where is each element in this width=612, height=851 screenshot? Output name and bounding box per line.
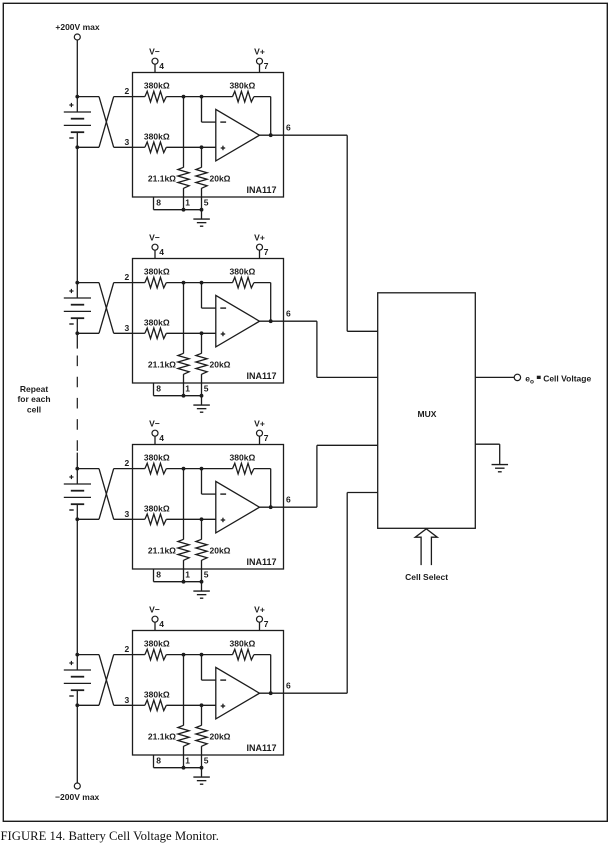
- battery cell 3 top lead: [76, 469, 78, 484]
- svg-text:V−: V−: [149, 232, 160, 242]
- battery cell 2 plate long lower: [64, 310, 91, 312]
- +200V max terminal: [55, 22, 99, 40]
- wire pin3 into 380k block 4: [133, 704, 145, 706]
- battery cell 2 minus node dot: [75, 331, 79, 335]
- wire block4 output to MUX: [284, 493, 378, 694]
- figure caption: [1, 829, 219, 844]
- wire battery2 down (solid part): [76, 333, 78, 348]
- battery cell 2 plus sign: [69, 289, 73, 293]
- svg-text:21.1kΩ: 21.1kΩ: [148, 174, 176, 184]
- svg-text:5: 5: [204, 570, 209, 580]
- V+ supply terminal block 1 (pin 7): [254, 46, 269, 72]
- junction dot output node block 2: [269, 319, 273, 323]
- pin 5 label block 2: [204, 384, 209, 394]
- pin 3 label block 2: [124, 323, 129, 333]
- wire battery 3 minus to pin2 (cross): [77, 469, 132, 520]
- V- supply terminal block 4 (pin 4): [149, 604, 164, 630]
- op-amp minus sign block 2: [220, 307, 226, 309]
- resistor 20k block 1: [196, 167, 207, 188]
- op-amp plus sign block 4: [221, 704, 226, 709]
- eo = Cell Voltage label: [525, 373, 591, 385]
- wire battery3 to battery4: [76, 519, 78, 654]
- battery cell 1 plate short lower: [71, 131, 84, 133]
- junction dot pin5 block 4: [200, 766, 204, 770]
- repeat for each cell note: [17, 384, 50, 415]
- wire battery 1 plus to pin3 (cross): [77, 97, 132, 148]
- 380k label input pin3 block 3: [144, 503, 170, 513]
- junction dot 20k tap block 4: [200, 703, 204, 707]
- svg-text:4: 4: [159, 433, 164, 443]
- INA117 part label block 4: [246, 743, 276, 753]
- wire MUX to ground: [475, 444, 499, 464]
- resistor 380k input (pin3) block 1: [145, 142, 166, 153]
- svg-text:INA117: INA117: [246, 743, 276, 753]
- wire inverting input branch block 3: [202, 469, 216, 495]
- svg-text:380kΩ: 380kΩ: [144, 267, 170, 277]
- pin 5 label block 4: [204, 756, 209, 766]
- op-amp minus sign block 3: [220, 493, 226, 495]
- pin 2 label block 2: [124, 272, 129, 282]
- wire to ground block 3: [201, 582, 203, 591]
- 21.1k label block 1: [148, 174, 176, 184]
- wire 20k lower lead block 1: [201, 188, 203, 210]
- pin 3 label block 3: [124, 509, 129, 519]
- wire 20k lower lead block 4: [201, 746, 203, 768]
- battery cell 4 plate short upper: [71, 676, 84, 678]
- svg-text:8: 8: [156, 756, 161, 766]
- wire +200V to battery 1: [76, 40, 78, 97]
- pin 2 label block 1: [124, 86, 129, 96]
- 380k label input pin2 block 4: [144, 639, 170, 649]
- junction dot pin1 block 4: [182, 766, 186, 770]
- svg-text:for each: for each: [17, 394, 50, 404]
- wire 21.1k upper lead block 3: [183, 469, 185, 540]
- svg-text:8: 8: [156, 384, 161, 394]
- INA117 part label block 2: [246, 371, 276, 381]
- svg-text:8: 8: [156, 198, 161, 208]
- svg-text:V+: V+: [254, 604, 265, 614]
- junction dot 21.1k tap block 4: [182, 653, 186, 657]
- 20k label block 1: [210, 174, 231, 184]
- svg-text:380kΩ: 380kΩ: [230, 639, 256, 649]
- junction dot pin1 block 2: [182, 394, 186, 398]
- resistor 380k input (pin2) block 1: [145, 91, 166, 102]
- svg-text:4: 4: [159, 247, 164, 257]
- svg-text:V+: V+: [254, 418, 265, 428]
- resistor 20k block 4: [196, 725, 207, 746]
- svg-text:cell: cell: [27, 405, 41, 415]
- svg-text:5: 5: [204, 198, 209, 208]
- resistor 380k input (pin2) block 3: [145, 463, 166, 474]
- wire battery4 to -200V: [76, 705, 78, 783]
- svg-text:INA117: INA117: [246, 185, 276, 195]
- pin 1 label block 1: [185, 198, 190, 208]
- wire pin3 into 380k block 3: [133, 518, 145, 520]
- wire 21.1k lower lead block 3: [183, 560, 185, 582]
- ground symbol block 1: [193, 219, 210, 226]
- pin 6 label block 4: [286, 681, 291, 691]
- wire inverting input branch block 2: [202, 283, 216, 309]
- battery cell 1 minus sign: [69, 137, 73, 139]
- svg-text:5: 5: [204, 384, 209, 394]
- wire feedback to output block 3: [254, 469, 271, 508]
- svg-text:V+: V+: [254, 46, 265, 56]
- wire pin3 into 380k block 1: [133, 146, 145, 148]
- wire 20k upper lead block 2: [201, 333, 203, 353]
- V+ supply terminal block 4 (pin 7): [254, 604, 269, 630]
- wire noninverting input block 1: [166, 146, 216, 148]
- wire inverting input branch block 4: [202, 655, 216, 681]
- battery cell 2 plate long upper: [64, 297, 91, 299]
- battery cell 3 plus sign: [69, 475, 73, 479]
- MUX box: [378, 293, 476, 529]
- battery cell 3 plate long upper: [64, 483, 91, 485]
- resistor 380k input (pin3) block 4: [145, 700, 166, 711]
- svg-text:Cell Voltage: Cell Voltage: [543, 373, 591, 383]
- resistor 380k input (pin2) block 2: [145, 277, 166, 288]
- wire 21.1k lower lead block 2: [183, 374, 185, 396]
- junction dot pin5 block 1: [200, 208, 204, 212]
- INA117 block 3 box outline: [133, 445, 284, 570]
- wire inverting input branch block 1: [202, 97, 216, 123]
- battery cell 4 top lead: [76, 655, 78, 670]
- svg-text:1: 1: [185, 756, 190, 766]
- INA117 block 2 box outline: [133, 259, 284, 384]
- pin 1 label block 4: [185, 756, 190, 766]
- wire battery 2 plus to pin3 (cross): [77, 283, 132, 334]
- resistor 380k feedback block 2: [233, 277, 254, 288]
- svg-text:21.1kΩ: 21.1kΩ: [148, 732, 176, 742]
- junction dot 20k tap block 3: [200, 517, 204, 521]
- wire 21.1k upper lead block 1: [183, 97, 185, 168]
- battery cell 2 minus sign: [69, 323, 73, 325]
- svg-text:2: 2: [124, 458, 129, 468]
- 380k label feedback block 3: [230, 453, 256, 463]
- svg-text:−200V max: −200V max: [55, 792, 99, 802]
- wire to ground block 4: [201, 768, 203, 777]
- junction dot pin1 block 3: [182, 580, 186, 584]
- svg-text:6: 6: [286, 123, 291, 133]
- svg-text:3: 3: [124, 137, 129, 147]
- INA117 block 4 box outline: [133, 631, 284, 756]
- wire summing node top row block 1: [166, 96, 232, 98]
- INA117 block 1 box outline: [133, 73, 284, 198]
- INA117 part label block 3: [246, 557, 276, 567]
- battery cell 3 plate short lower: [71, 503, 84, 505]
- svg-text:6: 6: [286, 681, 291, 691]
- pin 2 label block 3: [124, 458, 129, 468]
- resistor 21.1k block 4: [178, 725, 189, 746]
- wire pin8 stub block 3: [154, 569, 184, 582]
- battery cell 1 plus node dot: [75, 95, 79, 99]
- svg-text:20kΩ: 20kΩ: [210, 174, 231, 184]
- battery cell 4 bottom lead: [76, 690, 78, 705]
- resistor 380k feedback block 1: [233, 91, 254, 102]
- wire 21.1k upper lead block 4: [183, 655, 185, 726]
- svg-text:3: 3: [124, 323, 129, 333]
- wire feedback to output block 1: [254, 97, 271, 136]
- junction dot output node block 1: [269, 133, 273, 137]
- svg-text:4: 4: [159, 619, 164, 629]
- wire pin8 stub block 4: [154, 755, 184, 768]
- pin 8 label block 1: [156, 198, 161, 208]
- battery cell 1 top lead: [76, 97, 78, 112]
- resistor 380k input (pin3) block 2: [145, 328, 166, 339]
- junction dot 21.1k tap block 2: [182, 281, 186, 285]
- V+ supply terminal block 2 (pin 7): [254, 232, 269, 258]
- battery cell 1 plate long upper: [64, 111, 91, 113]
- wire 20k lower lead block 3: [201, 560, 203, 582]
- pin 6 label block 3: [286, 495, 291, 505]
- svg-text:V−: V−: [149, 418, 160, 428]
- wire pin2 into 380k block 1: [133, 96, 145, 98]
- wire pin1-pin5 tie block 2: [184, 395, 202, 397]
- wire pin1-pin5 tie block 4: [184, 767, 202, 769]
- svg-text:V+: V+: [254, 232, 265, 242]
- battery cell 1 bottom lead: [76, 132, 78, 147]
- pin 8 label block 3: [156, 570, 161, 580]
- op-amp plus sign block 1: [221, 146, 226, 151]
- resistor 21.1k block 1: [178, 167, 189, 188]
- battery cell 4 plus node dot: [75, 653, 79, 657]
- svg-text:20kΩ: 20kΩ: [210, 732, 231, 742]
- pin 1 label block 2: [185, 384, 190, 394]
- svg-text:380kΩ: 380kΩ: [144, 131, 170, 141]
- svg-text:6: 6: [286, 309, 291, 319]
- wire noninverting input block 3: [166, 518, 216, 520]
- resistor 20k block 2: [196, 353, 207, 374]
- svg-text:21.1kΩ: 21.1kΩ: [148, 360, 176, 370]
- wire battery 4 plus to pin3 (cross): [77, 655, 132, 706]
- battery cell 3 plate long lower: [64, 496, 91, 498]
- wire pin8 stub block 1: [154, 197, 184, 210]
- svg-text:380kΩ: 380kΩ: [144, 81, 170, 91]
- junction dot 21.1k tap block 1: [182, 95, 186, 99]
- svg-text:380kΩ: 380kΩ: [230, 81, 256, 91]
- svg-text:MUX: MUX: [418, 409, 437, 419]
- op-amp triangle block 3: [216, 481, 260, 533]
- svg-text:21.1kΩ: 21.1kΩ: [148, 546, 176, 556]
- svg-text:380kΩ: 380kΩ: [144, 503, 170, 513]
- battery cell 1 plus sign: [69, 103, 73, 107]
- op-amp plus sign block 2: [221, 332, 226, 337]
- junction dot inverting node block 2: [200, 281, 204, 285]
- resistor 380k feedback block 4: [233, 649, 254, 660]
- ground symbol block 3: [193, 591, 210, 598]
- svg-text:7: 7: [264, 247, 269, 257]
- svg-text:1: 1: [185, 384, 190, 394]
- wire summing node top row block 2: [166, 282, 232, 284]
- 380k label input pin3 block 1: [144, 131, 170, 141]
- junction dot 20k tap block 2: [200, 331, 204, 335]
- junction dot inverting node block 1: [200, 95, 204, 99]
- wire pin2 into 380k block 4: [133, 654, 145, 656]
- wire battery 1 minus to pin2 (cross): [77, 97, 132, 148]
- 20k label block 4: [210, 732, 231, 742]
- battery cell 4 plate long upper: [64, 669, 91, 671]
- svg-text:380kΩ: 380kΩ: [144, 639, 170, 649]
- battery cell 1 plate long lower: [64, 124, 91, 126]
- svg-text:2: 2: [124, 644, 129, 654]
- svg-text:7: 7: [264, 61, 269, 71]
- svg-text:6: 6: [286, 495, 291, 505]
- wire to battery3 (solid part): [76, 453, 78, 469]
- wire pin8 stub block 2: [154, 383, 184, 396]
- battery cell 4 plate short lower: [71, 689, 84, 691]
- wire block1 output to MUX: [284, 135, 378, 331]
- svg-text:V−: V−: [149, 604, 160, 614]
- wire noninverting input block 4: [166, 704, 216, 706]
- battery cell 2 bottom lead: [76, 318, 78, 333]
- junction dot 20k tap block 1: [200, 145, 204, 149]
- wire dashed repeat section: [76, 356, 78, 453]
- battery cell 1 plate short upper: [71, 118, 84, 120]
- wire battery 2 minus to pin2 (cross): [77, 283, 132, 334]
- V- supply terminal block 2 (pin 4): [149, 232, 164, 258]
- battery cell 4 minus node dot: [75, 703, 79, 707]
- battery cell 4 plate long lower: [64, 682, 91, 684]
- wire pin2 into 380k block 3: [133, 468, 145, 470]
- cell select arrow: [415, 529, 437, 565]
- ground symbol block 4: [193, 777, 210, 784]
- V+ supply terminal block 3 (pin 7): [254, 418, 269, 444]
- wire summing node top row block 4: [166, 654, 232, 656]
- svg-text:1: 1: [185, 198, 190, 208]
- svg-text:INA117: INA117: [246, 557, 276, 567]
- pin 8 label block 2: [156, 384, 161, 394]
- svg-text:INA117: INA117: [246, 371, 276, 381]
- wire noninverting input block 2: [166, 332, 216, 334]
- wire op-amp output block 2: [260, 320, 284, 322]
- svg-text:Cell Select: Cell Select: [405, 572, 448, 582]
- wire 20k upper lead block 3: [201, 519, 203, 539]
- wire battery 3 plus to pin3 (cross): [77, 469, 132, 520]
- wire 20k upper lead block 4: [201, 705, 203, 725]
- op-amp minus sign block 4: [220, 679, 226, 681]
- svg-text:o: o: [530, 378, 534, 385]
- resistor 21.1k block 2: [178, 353, 189, 374]
- pin 6 label block 2: [286, 309, 291, 319]
- output terminal eo: [514, 374, 520, 380]
- 21.1k label block 4: [148, 732, 176, 742]
- wire pin1-pin5 tie block 3: [184, 581, 202, 583]
- svg-text:380kΩ: 380kΩ: [144, 689, 170, 699]
- 380k label input pin3 block 4: [144, 689, 170, 699]
- svg-text:+200V max: +200V max: [55, 22, 99, 32]
- pin 3 label block 4: [124, 695, 129, 705]
- op-amp triangle block 4: [216, 667, 260, 719]
- svg-text:8: 8: [156, 570, 161, 580]
- wire op-amp output block 4: [260, 692, 284, 694]
- resistor 380k input (pin3) block 3: [145, 514, 166, 525]
- svg-text:5: 5: [204, 756, 209, 766]
- 20k label block 2: [210, 360, 231, 370]
- pin 1 label block 3: [185, 570, 190, 580]
- wire 21.1k lower lead block 4: [183, 746, 185, 768]
- pin 8 label block 4: [156, 756, 161, 766]
- 21.1k label block 3: [148, 546, 176, 556]
- battery cell 3 minus node dot: [75, 517, 79, 521]
- battery cell 4 plus sign: [69, 661, 73, 665]
- 21.1k label block 2: [148, 360, 176, 370]
- 380k label feedback block 4: [230, 639, 256, 649]
- wire op-amp output block 1: [260, 134, 284, 136]
- 380k label feedback block 2: [230, 267, 256, 277]
- junction dot pin5 block 3: [200, 580, 204, 584]
- INA117 part label block 1: [246, 185, 276, 195]
- svg-text:380kΩ: 380kΩ: [144, 453, 170, 463]
- junction dot 21.1k tap block 3: [182, 467, 186, 471]
- pin 5 label block 3: [204, 570, 209, 580]
- wire feedback to output block 2: [254, 283, 271, 322]
- svg-text:Repeat: Repeat: [20, 384, 49, 394]
- wire feedback to output block 4: [254, 655, 271, 694]
- battery cell 3 minus sign: [69, 509, 73, 511]
- junction dot output node block 4: [269, 691, 273, 695]
- battery cell 3 bottom lead: [76, 504, 78, 519]
- pin 3 label block 1: [124, 137, 129, 147]
- battery cell 2 plus node dot: [75, 281, 79, 285]
- wire op-amp output block 3: [260, 506, 284, 508]
- op-amp minus sign block 1: [220, 121, 226, 123]
- pin 6 label block 1: [286, 123, 291, 133]
- junction dot pin5 block 2: [200, 394, 204, 398]
- battery cell 4 minus sign: [69, 695, 73, 697]
- wire MUX output: [475, 376, 514, 378]
- svg-text:7: 7: [264, 619, 269, 629]
- wire to ground block 2: [201, 396, 203, 405]
- wire battery 4 minus to pin2 (cross): [77, 655, 132, 706]
- battery cell 3 plus node dot: [75, 467, 79, 471]
- junction dot output node block 3: [269, 505, 273, 509]
- battery cell 2 plate short lower: [71, 317, 84, 319]
- ground symbol block 2: [193, 405, 210, 412]
- svg-text:3: 3: [124, 695, 129, 705]
- wire 20k lower lead block 2: [201, 374, 203, 396]
- resistor 380k feedback block 3: [233, 463, 254, 474]
- resistor 380k input (pin2) block 4: [145, 649, 166, 660]
- junction dot inverting node block 3: [200, 467, 204, 471]
- 380k label feedback block 1: [230, 81, 256, 91]
- wire to ground block 1: [201, 210, 203, 219]
- svg-text:380kΩ: 380kΩ: [144, 317, 170, 327]
- battery cell 2 top lead: [76, 283, 78, 298]
- resistor 20k block 3: [196, 539, 207, 560]
- svg-text:380kΩ: 380kΩ: [230, 267, 256, 277]
- resistor 21.1k block 3: [178, 539, 189, 560]
- svg-text:3: 3: [124, 509, 129, 519]
- pin 2 label block 4: [124, 644, 129, 654]
- wire 21.1k upper lead block 2: [183, 283, 185, 354]
- MUX label: [418, 409, 437, 419]
- svg-text:V−: V−: [149, 46, 160, 56]
- svg-text:7: 7: [264, 433, 269, 443]
- wire summing node top row block 3: [166, 468, 232, 470]
- junction dot pin1 block 1: [182, 208, 186, 212]
- wire block3 output to MUX: [284, 445, 378, 507]
- V- supply terminal block 1 (pin 4): [149, 46, 164, 72]
- svg-text:20kΩ: 20kΩ: [210, 546, 231, 556]
- svg-text:2: 2: [124, 86, 129, 96]
- 380k label input pin2 block 2: [144, 267, 170, 277]
- 20k label block 3: [210, 546, 231, 556]
- battery cell 2 plate short upper: [71, 304, 84, 306]
- wire pin3 into 380k block 2: [133, 332, 145, 334]
- wire pin2 into 380k block 2: [133, 282, 145, 284]
- wire 21.1k lower lead block 1: [183, 188, 185, 210]
- svg-text:380kΩ: 380kΩ: [230, 453, 256, 463]
- svg-text:2: 2: [124, 272, 129, 282]
